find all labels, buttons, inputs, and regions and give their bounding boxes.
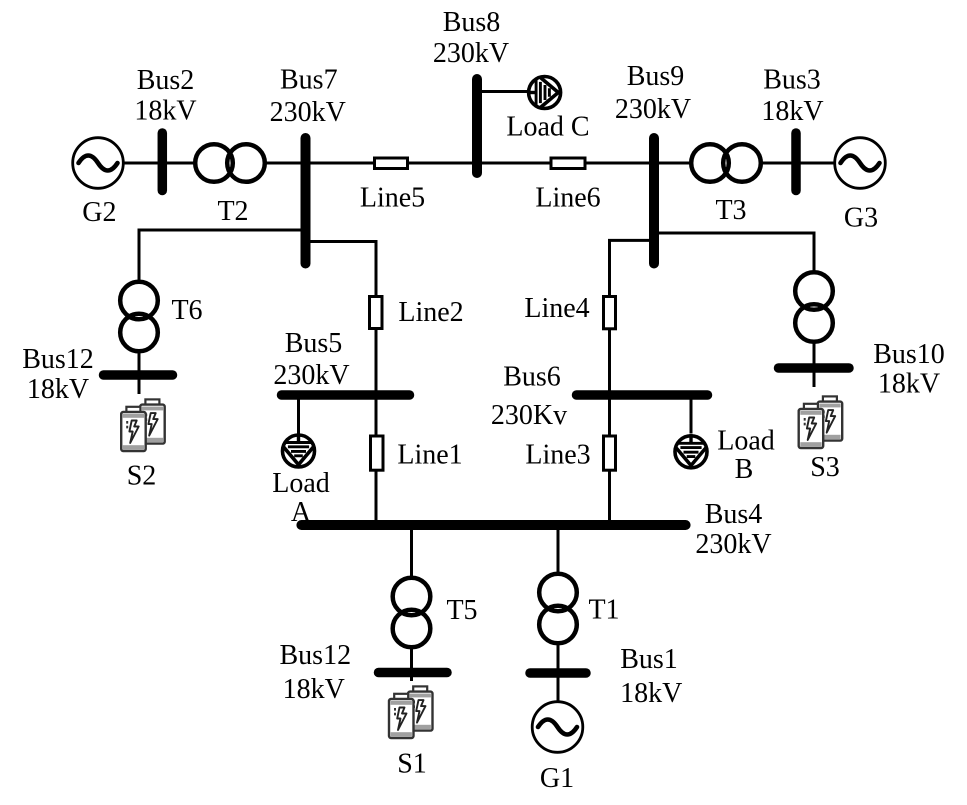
svg-text:Bus8: Bus8 bbox=[443, 7, 501, 38]
svg-text:B: B bbox=[735, 454, 754, 485]
svg-text:Line6: Line6 bbox=[535, 183, 600, 214]
svg-text:Bus12: Bus12 bbox=[22, 344, 94, 375]
svg-text:Bus7: Bus7 bbox=[280, 65, 338, 96]
svg-text:G3: G3 bbox=[844, 203, 878, 234]
svg-text:Bus6: Bus6 bbox=[503, 362, 561, 393]
svg-text:Line2: Line2 bbox=[398, 297, 463, 328]
svg-text:Bus10: Bus10 bbox=[873, 339, 945, 370]
svg-text:G1: G1 bbox=[540, 763, 574, 794]
svg-text:T2: T2 bbox=[217, 196, 248, 227]
svg-text:Load C: Load C bbox=[506, 112, 589, 143]
svg-text:S1: S1 bbox=[397, 749, 427, 780]
svg-text:G2: G2 bbox=[82, 197, 116, 228]
svg-text:T1: T1 bbox=[588, 595, 619, 626]
svg-text:T6: T6 bbox=[171, 295, 202, 326]
svg-text:Line4: Line4 bbox=[524, 293, 589, 324]
svg-text:18kV: 18kV bbox=[27, 374, 89, 405]
svg-text:230kV: 230kV bbox=[273, 360, 349, 391]
svg-text:S3: S3 bbox=[810, 452, 840, 483]
svg-text:T5: T5 bbox=[446, 595, 477, 626]
svg-text:18kV: 18kV bbox=[620, 678, 682, 709]
svg-text:18kV: 18kV bbox=[878, 369, 940, 400]
svg-text:Line5: Line5 bbox=[360, 183, 425, 214]
svg-text:Load: Load bbox=[717, 426, 775, 457]
svg-text:Bus9: Bus9 bbox=[627, 61, 685, 92]
svg-text:Bus2: Bus2 bbox=[137, 65, 195, 96]
svg-text:230Kv: 230Kv bbox=[491, 400, 567, 431]
svg-text:230kV: 230kV bbox=[270, 97, 346, 128]
svg-text:18kV: 18kV bbox=[761, 96, 823, 127]
svg-text:230kV: 230kV bbox=[433, 38, 509, 69]
svg-text:Line1: Line1 bbox=[397, 440, 462, 471]
svg-text:S2: S2 bbox=[127, 461, 157, 492]
svg-text:Bus12: Bus12 bbox=[280, 640, 352, 671]
svg-text:Bus5: Bus5 bbox=[285, 328, 343, 359]
svg-text:230kV: 230kV bbox=[615, 94, 691, 125]
svg-text:230kV: 230kV bbox=[695, 529, 771, 560]
svg-text:Bus3: Bus3 bbox=[763, 65, 821, 96]
svg-text:Bus1: Bus1 bbox=[620, 644, 678, 675]
svg-text:T3: T3 bbox=[715, 195, 746, 226]
svg-text:Load: Load bbox=[272, 468, 330, 499]
svg-text:18kV: 18kV bbox=[283, 674, 345, 705]
svg-text:Line3: Line3 bbox=[525, 440, 590, 471]
svg-text:18kV: 18kV bbox=[134, 96, 196, 127]
svg-text:Bus4: Bus4 bbox=[705, 499, 763, 530]
svg-text:A: A bbox=[291, 497, 312, 528]
